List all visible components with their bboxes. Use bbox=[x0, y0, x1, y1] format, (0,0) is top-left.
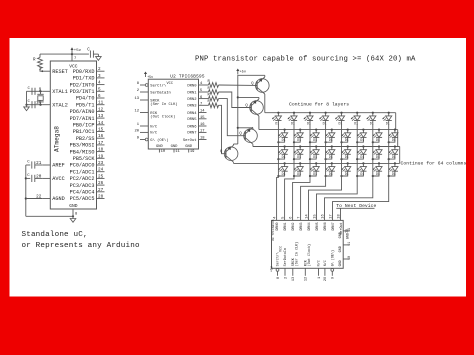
U2 pin 2 SerDataIn bbox=[137, 89, 171, 95]
+5v power flag at U3 bbox=[270, 266, 274, 272]
svg-text:Continue for 64 columns: Continue for 64 columns bbox=[401, 160, 467, 166]
U1 pin 18 PB4/MISO bbox=[70, 148, 105, 156]
column 3 vertical wire bbox=[309, 121, 311, 176]
LED D16 layer 2 column 8 bbox=[388, 129, 398, 144]
svg-text:PB5/SCK: PB5/SCK bbox=[73, 156, 96, 162]
wire Q2 collector to layer 2 bbox=[258, 116, 260, 130]
column 5 vertical wire bbox=[341, 121, 343, 176]
LED D18 layer 3 column 2 bbox=[293, 145, 303, 160]
svg-text:27: 27 bbox=[98, 188, 104, 193]
svg-text:AGND: AGND bbox=[52, 196, 64, 202]
svg-text:D1: D1 bbox=[345, 155, 349, 159]
base resistor R3 on DRN1 bbox=[207, 87, 219, 95]
svg-text:PD1/TXD: PD1/TXD bbox=[73, 76, 95, 82]
svg-text:SerClr\: SerClr\ bbox=[276, 252, 281, 266]
svg-text:(Out Clock): (Out Clock) bbox=[150, 114, 175, 119]
U1 pin 28 PC5/ADC5 bbox=[70, 195, 105, 203]
U3 RCK sublabel bbox=[307, 244, 312, 266]
U2 pin 14 DRN4 bbox=[187, 110, 206, 116]
svg-text:SerClr\: SerClr\ bbox=[150, 83, 167, 88]
U3 VCC label bbox=[280, 246, 284, 252]
svg-text:DRN3: DRN3 bbox=[300, 222, 304, 230]
wire Q4 collector to layer 4 bbox=[233, 162, 235, 163]
LED D22 layer 3 column 6 bbox=[356, 145, 366, 160]
svg-text:AVCC: AVCC bbox=[52, 176, 64, 182]
svg-text:XTAL1: XTAL1 bbox=[52, 89, 68, 95]
svg-text:D1: D1 bbox=[313, 155, 317, 159]
U3 pin 4 DRN0 bbox=[273, 217, 280, 231]
wire ground bus under U1 bbox=[26, 215, 74, 217]
svg-text:DRN6: DRN6 bbox=[187, 125, 197, 129]
svg-text:(Out Clock): (Out Clock) bbox=[307, 244, 312, 266]
wire column 1 to U3 DRN0 bbox=[277, 176, 279, 220]
svg-text:2: 2 bbox=[284, 277, 288, 279]
U1 pin 20 AVCC bbox=[36, 174, 65, 182]
caption: Standalone uC, bbox=[22, 231, 88, 239]
svg-text:PC1/ADC1: PC1/ADC1 bbox=[70, 169, 95, 175]
U2 VCC label bbox=[167, 82, 173, 86]
svg-text:SerOut: SerOut bbox=[183, 138, 197, 143]
svg-text:D1: D1 bbox=[345, 172, 349, 176]
wire R3 to Q2 base bbox=[219, 92, 252, 108]
svg-text:N/C: N/C bbox=[323, 260, 328, 266]
layer continuation step 1-2 bbox=[395, 113, 397, 130]
svg-text:DRN1: DRN1 bbox=[284, 222, 288, 230]
svg-text:(Ser In CLK): (Ser In CLK) bbox=[294, 242, 299, 266]
LED D30 layer 4 column 6 bbox=[356, 162, 366, 177]
LED D21 layer 3 column 5 bbox=[340, 145, 350, 160]
U1 pin 12 PD6/AIN0 bbox=[70, 107, 105, 115]
LED D7 layer 1 column 7 bbox=[366, 112, 376, 126]
U3 pin 2 SerDataIn bbox=[283, 248, 288, 279]
svg-text:14: 14 bbox=[305, 214, 309, 218]
svg-text:14: 14 bbox=[200, 110, 205, 114]
LED D19 layer 3 column 3 bbox=[309, 145, 319, 160]
svg-text:G\ (OE\): G\ (OE\) bbox=[150, 138, 168, 143]
svg-text:11: 11 bbox=[98, 101, 104, 106]
layer 2 horizontal wire bbox=[259, 129, 398, 131]
note: Continue for 64 columns bbox=[401, 160, 467, 166]
svg-text:N/C: N/C bbox=[317, 260, 322, 266]
svg-text:7: 7 bbox=[297, 217, 301, 219]
wire column 6 to U3 DRN5 bbox=[317, 176, 358, 220]
svg-text:23: 23 bbox=[98, 161, 104, 166]
svg-text:GND: GND bbox=[156, 145, 164, 149]
U3 pin 6 DRN2 bbox=[289, 217, 296, 231]
U1 pin 4 PD2/INT0 bbox=[70, 81, 105, 89]
wire Q1 emitter to +5v bbox=[238, 75, 265, 77]
svg-text:D1: D1 bbox=[376, 155, 380, 159]
svg-text:+5v: +5v bbox=[240, 71, 247, 75]
U3 GND pin 19 bbox=[339, 228, 352, 238]
svg-text:PNP transistor capable of sour: PNP transistor capable of sourcing >= (6… bbox=[195, 56, 416, 64]
U1 pin 5 PD3/INT1 bbox=[70, 87, 105, 95]
U1 pin 6 PD4/T0 bbox=[76, 94, 105, 102]
LED D5 layer 1 column 5 bbox=[335, 112, 345, 126]
wire XTAL2 net bbox=[25, 104, 42, 106]
svg-text:DRN6: DRN6 bbox=[324, 222, 328, 230]
svg-text:D1: D1 bbox=[297, 172, 301, 176]
U2 pin 15 DRN5 bbox=[187, 116, 206, 122]
svg-text:DRN7: DRN7 bbox=[332, 222, 336, 230]
U3 pin 14 DRN4 bbox=[305, 214, 312, 230]
svg-text:1: 1 bbox=[318, 277, 322, 279]
U3 GND pin 11 bbox=[339, 242, 352, 252]
U1 pin 2 PD0/RXD bbox=[73, 67, 105, 75]
svg-text:RESET: RESET bbox=[52, 69, 68, 75]
U1 pin 23 PC0/ADC0 bbox=[70, 161, 105, 169]
svg-text:D1: D1 bbox=[297, 155, 301, 159]
svg-text:PD2/INT0: PD2/INT0 bbox=[70, 82, 95, 88]
svg-text:D1: D1 bbox=[282, 138, 286, 142]
svg-text:PB3/MOSI: PB3/MOSI bbox=[70, 143, 95, 149]
wire R2 to Q1 base bbox=[219, 84, 258, 87]
svg-text:PB0/ICP: PB0/ICP bbox=[73, 123, 95, 129]
U1 pin 26 PC3/ADC3 bbox=[70, 181, 105, 189]
LED D24 layer 3 column 8 bbox=[388, 145, 398, 160]
wire Q3 collector to layer 3 bbox=[252, 144, 254, 146]
U2 pin 8 SerClr\ bbox=[137, 82, 167, 88]
svg-text:GND: GND bbox=[171, 145, 179, 149]
svg-text:PD5/T1: PD5/T1 bbox=[76, 102, 95, 108]
U1 pin 10 XTAL2 bbox=[36, 101, 68, 109]
svg-text:10: 10 bbox=[161, 150, 166, 154]
wire column 3 to U3 DRN2 bbox=[293, 176, 310, 220]
transistor Q4 (PNP) bbox=[220, 145, 238, 162]
svg-text:DRN4: DRN4 bbox=[187, 112, 197, 116]
svg-text:8: 8 bbox=[277, 277, 281, 279]
svg-text:10: 10 bbox=[348, 256, 352, 260]
U3 pin 9 G\ (OE\) bbox=[331, 250, 336, 279]
svg-text:25: 25 bbox=[98, 174, 104, 179]
U1 pin 9 XTAL1 bbox=[39, 87, 68, 95]
svg-text:4: 4 bbox=[98, 81, 101, 86]
svg-text:DRN3: DRN3 bbox=[187, 105, 197, 109]
LED D8 layer 1 column 8 bbox=[382, 112, 392, 126]
column 4 vertical wire bbox=[325, 121, 327, 176]
U2 pin 5 DRN1 bbox=[187, 89, 206, 95]
svg-text:XTAL2: XTAL2 bbox=[52, 102, 68, 108]
U2 SRCK sublabel bbox=[150, 102, 177, 107]
svg-text:D1: D1 bbox=[360, 138, 364, 142]
LED D1 layer 1 column 1 bbox=[272, 112, 282, 126]
svg-text:28: 28 bbox=[98, 195, 104, 200]
svg-text:26: 26 bbox=[98, 181, 104, 186]
left analog rail bbox=[25, 165, 27, 216]
svg-text:5: 5 bbox=[281, 217, 285, 219]
column 1 vertical wire bbox=[277, 121, 279, 176]
wire Q3 emitter to +5v bbox=[238, 128, 253, 129]
svg-text:13: 13 bbox=[292, 277, 296, 281]
LED D29 layer 4 column 5 bbox=[340, 162, 350, 177]
wire +5v rail to U1 VCC bbox=[40, 53, 89, 61]
U3 pin 1 N/C bbox=[317, 260, 322, 279]
U2 GND pin 11 bbox=[171, 145, 181, 154]
svg-text:or Represents any Arduino: or Represents any Arduino bbox=[22, 242, 140, 250]
crystal Y1 bbox=[37, 91, 43, 104]
svg-text:U2 TPIC6B595: U2 TPIC6B595 bbox=[170, 74, 205, 79]
svg-text:GND: GND bbox=[339, 260, 343, 266]
LED D31 layer 4 column 7 bbox=[372, 162, 382, 177]
LED D32 layer 4 column 8 bbox=[388, 162, 398, 177]
svg-text:16: 16 bbox=[200, 123, 205, 127]
svg-text:PC4/ADC4: PC4/ADC4 bbox=[70, 190, 95, 196]
U3 pin 13 SRCK bbox=[292, 257, 296, 281]
U2 pin 17 DRN7 bbox=[187, 130, 206, 136]
LED D17 layer 3 column 1 bbox=[277, 145, 287, 160]
LED D26 layer 4 column 2 bbox=[293, 162, 303, 177]
LED D13 layer 2 column 5 bbox=[340, 129, 350, 144]
svg-text:D1: D1 bbox=[392, 138, 396, 142]
svg-text:(Ser In CLK): (Ser In CLK) bbox=[150, 102, 177, 107]
svg-text:12: 12 bbox=[134, 110, 139, 114]
svg-text:PC3/ADC3: PC3/ADC3 bbox=[70, 183, 95, 189]
svg-text:Continue for 8 layers: Continue for 8 layers bbox=[289, 101, 349, 107]
svg-text:13: 13 bbox=[98, 114, 104, 119]
svg-text:D1: D1 bbox=[313, 172, 317, 176]
svg-text:+5v: +5v bbox=[74, 49, 82, 53]
U1 pin 16 PB2/SS bbox=[76, 134, 105, 142]
shift register U2 TPIC6B595 body bbox=[148, 79, 198, 149]
svg-text:SerDataIn: SerDataIn bbox=[150, 90, 171, 95]
U1 pin 3 PD1/TXD bbox=[73, 74, 105, 82]
svg-text:+5v: +5v bbox=[270, 266, 274, 272]
layer continuation step 3-4 bbox=[399, 147, 401, 164]
wire column 7 to U3 DRN6 bbox=[325, 176, 373, 220]
wire column 8 to U3 DRN7 bbox=[333, 176, 389, 220]
svg-text:PB4/MISO: PB4/MISO bbox=[70, 149, 95, 155]
U2 pin 9 G\ (OE\) bbox=[137, 137, 169, 143]
svg-text:17: 17 bbox=[200, 130, 205, 134]
svg-text:ATmega8: ATmega8 bbox=[54, 126, 61, 152]
U3 pin 20 N/C bbox=[323, 260, 328, 281]
base resistor R5 on DRN3 bbox=[207, 100, 219, 108]
LED D20 layer 3 column 4 bbox=[325, 145, 335, 160]
U3 pin 16 DRN6 bbox=[321, 214, 328, 230]
svg-text:PD6/AIN0: PD6/AIN0 bbox=[70, 109, 95, 115]
wire R1 to RESET bbox=[40, 69, 43, 73]
+5v power flag at U1 bbox=[71, 47, 82, 54]
svg-text:N/C: N/C bbox=[150, 131, 158, 136]
svg-text:5: 5 bbox=[98, 87, 101, 92]
U3 pin 8 SerClr\ bbox=[276, 252, 281, 279]
layer continuation step 2-3 bbox=[397, 130, 399, 147]
svg-text:7: 7 bbox=[74, 57, 76, 61]
LED D14 layer 2 column 6 bbox=[356, 129, 366, 144]
+5v power flag at rail bbox=[236, 69, 247, 75]
wire Q1 collector to layer 1 bbox=[264, 94, 266, 113]
svg-text:DRN5: DRN5 bbox=[316, 222, 320, 230]
LED D3 layer 1 column 3 bbox=[304, 112, 314, 126]
svg-text:19: 19 bbox=[190, 150, 195, 154]
pull-up resistor R1 on RESET bbox=[33, 54, 42, 69]
U1 pin 14 PB0/ICP bbox=[73, 121, 105, 129]
svg-text:12: 12 bbox=[98, 107, 104, 112]
column 7 vertical wire bbox=[372, 121, 374, 176]
svg-text:16: 16 bbox=[321, 214, 325, 218]
svg-text:D1: D1 bbox=[329, 155, 333, 159]
svg-text:19: 19 bbox=[98, 154, 104, 159]
LED D4 layer 1 column 4 bbox=[319, 112, 329, 126]
svg-text:PC2/ADC2: PC2/ADC2 bbox=[70, 176, 95, 182]
svg-text:GND: GND bbox=[339, 246, 343, 252]
wire AGND to rail bbox=[26, 198, 43, 200]
wire C1 to ground bbox=[93, 54, 98, 57]
svg-text:D1: D1 bbox=[360, 155, 364, 159]
svg-text:D1: D1 bbox=[282, 172, 286, 176]
capacitor C3 on XTAL2 bbox=[28, 100, 36, 108]
U1 pin 24 PC1/ADC1 bbox=[70, 168, 105, 176]
svg-text:D1: D1 bbox=[329, 138, 333, 142]
LED D6 layer 1 column 6 bbox=[351, 112, 361, 126]
svg-text:15: 15 bbox=[98, 128, 104, 133]
U3 pin 5 DRN1 bbox=[281, 217, 288, 231]
U1 pin 25 PC2/ADC2 bbox=[70, 174, 105, 182]
svg-text:Standalone uC,: Standalone uC, bbox=[22, 231, 88, 239]
wire XTAL1 net bbox=[27, 90, 43, 92]
svg-text:2: 2 bbox=[98, 67, 101, 72]
wire R5 to Q4 base bbox=[219, 105, 226, 153]
+5v power flag at U2 bbox=[144, 72, 153, 80]
note: Continue for 8 layers bbox=[289, 101, 349, 107]
U1 VCC pin 7 label bbox=[74, 57, 76, 61]
U2 designator label bbox=[170, 74, 205, 79]
shift register U3 TPIC6B595 body bbox=[272, 220, 344, 268]
svg-text:VCC: VCC bbox=[280, 246, 284, 252]
capacitor C2 on XTAL1 bbox=[28, 87, 36, 95]
svg-text:18: 18 bbox=[98, 148, 104, 153]
base resistor R4 on DRN2 bbox=[207, 93, 219, 101]
svg-text:15: 15 bbox=[200, 116, 205, 120]
svg-text:N/C: N/C bbox=[150, 124, 158, 129]
U3 SRCK sublabel bbox=[294, 242, 299, 266]
svg-text:13: 13 bbox=[134, 97, 139, 101]
LED D10 layer 2 column 2 bbox=[293, 129, 303, 144]
LED D2 layer 1 column 2 bbox=[288, 112, 298, 126]
LED D15 layer 2 column 7 bbox=[372, 129, 382, 144]
svg-text:17: 17 bbox=[329, 214, 333, 218]
U1 pin 17 PB3/MOSI bbox=[70, 141, 105, 149]
U1 pin 27 PC4/ADC4 bbox=[70, 188, 105, 196]
U3 pin 19 GND label top bbox=[346, 229, 351, 239]
svg-text:17: 17 bbox=[98, 141, 104, 146]
U2 GND pin 19 bbox=[185, 145, 195, 154]
U2 pin 18 SerOut bbox=[183, 137, 207, 143]
svg-text:D1: D1 bbox=[297, 138, 301, 142]
svg-text:+5v: +5v bbox=[147, 75, 153, 79]
U3 pin 7 DRN3 bbox=[297, 217, 304, 231]
svg-text:VCC: VCC bbox=[167, 82, 173, 86]
svg-text:PC5/ADC5: PC5/ADC5 bbox=[70, 196, 95, 202]
U3 GND pin 10 bbox=[339, 256, 352, 266]
layer 3 horizontal wire bbox=[253, 146, 400, 148]
U1 pin 13 PD7/AIN1 bbox=[70, 114, 105, 122]
white schematic canvas bbox=[10, 38, 467, 297]
svg-text:14: 14 bbox=[98, 121, 104, 126]
svg-text:19: 19 bbox=[348, 228, 352, 232]
svg-text:DRN1: DRN1 bbox=[187, 91, 197, 95]
svg-text:18: 18 bbox=[200, 137, 205, 141]
U1 GND pin 8 stub bbox=[73, 209, 78, 219]
base resistor R2 on DRN0 bbox=[207, 80, 219, 88]
decoupling capacitor C1 bbox=[87, 49, 93, 58]
wire R4 to Q3 base bbox=[219, 99, 246, 136]
title text: PNP transistor capable of sourcing bbox=[195, 56, 416, 64]
ground symbol at crystal bbox=[24, 107, 30, 111]
svg-text:GND: GND bbox=[185, 145, 193, 149]
svg-text:6: 6 bbox=[98, 94, 101, 99]
svg-text:11: 11 bbox=[175, 150, 180, 154]
note: To Next Device bbox=[336, 203, 376, 209]
U2 GND pin 10 bbox=[156, 145, 166, 154]
U1 pin 21 AREF bbox=[36, 161, 65, 169]
svg-text:16: 16 bbox=[98, 134, 104, 139]
ground rail left of crystal bbox=[26, 91, 28, 107]
svg-text:PC0/ADC0: PC0/ADC0 bbox=[70, 163, 95, 169]
ground symbol under U1 bbox=[70, 219, 76, 223]
U2 pin 16 DRN6 bbox=[187, 123, 206, 129]
capacitor C5 on AVCC bbox=[26, 174, 43, 182]
U2 pin 7 DRN3 bbox=[187, 103, 206, 109]
wire column 4 to U3 DRN3 bbox=[301, 176, 326, 220]
svg-text:DRN0: DRN0 bbox=[276, 222, 280, 230]
column 2 vertical wire bbox=[293, 121, 295, 176]
wire Q2 emitter to +5v bbox=[238, 97, 259, 99]
svg-text:11: 11 bbox=[348, 242, 352, 246]
U3 designator label bbox=[272, 219, 275, 241]
microcontroller U1 ATmega8 body bbox=[50, 61, 96, 209]
svg-text:18: 18 bbox=[337, 214, 341, 218]
svg-text:U3 TPIC6B595: U3 TPIC6B595 bbox=[272, 219, 275, 241]
svg-text:D1: D1 bbox=[392, 155, 396, 159]
svg-text:7: 7 bbox=[200, 103, 202, 107]
svg-text:20: 20 bbox=[134, 130, 139, 134]
U1 pin 11 PD5/T1 bbox=[76, 101, 105, 109]
svg-text:24: 24 bbox=[98, 168, 104, 173]
U2 pin 1 N/C bbox=[137, 123, 158, 129]
U2 pin 6 DRN2 bbox=[187, 96, 206, 102]
svg-text:D1: D1 bbox=[392, 172, 396, 176]
U3 pin 18 SerOut bbox=[337, 208, 344, 234]
svg-text:12: 12 bbox=[305, 277, 309, 281]
svg-text:D1: D1 bbox=[329, 172, 333, 176]
svg-text:DRN4: DRN4 bbox=[308, 222, 312, 230]
LED D9 layer 2 column 1 bbox=[277, 129, 287, 144]
svg-text:D1: D1 bbox=[360, 172, 364, 176]
wire column 2 to U3 DRN1 bbox=[285, 176, 294, 220]
ground symbol at C1 bbox=[96, 57, 102, 61]
U2 pin 12 RCK bbox=[134, 110, 157, 116]
layer 4 horizontal wire bbox=[234, 162, 400, 164]
svg-text:AREF: AREF bbox=[52, 163, 64, 169]
svg-text:GND: GND bbox=[339, 232, 343, 238]
svg-text:9: 9 bbox=[332, 277, 336, 279]
transistor Q2 (PNP) bbox=[245, 99, 263, 116]
svg-text:PB2/SS: PB2/SS bbox=[76, 136, 95, 142]
LED D28 layer 4 column 4 bbox=[325, 162, 335, 177]
capacitor C4 on AREF bbox=[26, 161, 43, 169]
svg-text:20: 20 bbox=[324, 277, 328, 281]
LED D27 layer 4 column 3 bbox=[309, 162, 319, 177]
+5v vertical rail bbox=[237, 75, 239, 145]
svg-text:D1: D1 bbox=[376, 172, 380, 176]
U2 pin 13 SRCK bbox=[134, 97, 160, 103]
wire Q4 emitter to +5v bbox=[234, 144, 238, 145]
transistor Q1 (PNP) bbox=[251, 77, 269, 94]
svg-text:PD4/T0: PD4/T0 bbox=[76, 96, 95, 102]
transistor Q3 (PNP) bbox=[239, 127, 257, 144]
svg-text:DRN7: DRN7 bbox=[187, 132, 196, 136]
